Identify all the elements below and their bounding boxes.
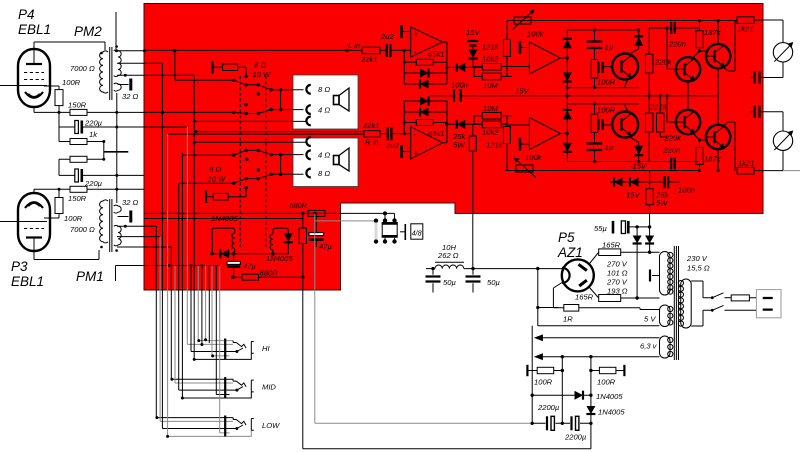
speaker terminal R common bbox=[306, 137, 310, 146]
connector node dots bbox=[374, 219, 378, 223]
U2 output wire bbox=[443, 101, 447, 143]
svg-text:270 V: 270 V bbox=[606, 278, 628, 287]
transistor Q3 ch1 bbox=[706, 44, 730, 68]
svg-text:4 Ω: 4 Ω bbox=[318, 151, 330, 160]
svg-text:10M: 10M bbox=[483, 104, 498, 113]
wire common box L bbox=[194, 120, 307, 122]
U1 output wire bbox=[443, 42, 447, 84]
U4 input terminal bbox=[519, 138, 522, 151]
resistor 25k 5W (vertical) bbox=[646, 189, 653, 205]
wire 100R lower connections bbox=[44, 189, 59, 218]
wire 1k21 top to meter M1 bbox=[763, 20, 783, 43]
svg-text:10k2: 10k2 bbox=[482, 128, 499, 137]
resistor 150R (lower) bbox=[70, 186, 87, 192]
bundle junction dots bbox=[197, 339, 200, 342]
svg-text:100R: 100R bbox=[62, 78, 81, 87]
bundle wire 7 bbox=[179, 183, 237, 390]
wire second row bbox=[144, 218, 303, 220]
svg-text:8 Ω: 8 Ω bbox=[318, 85, 330, 94]
bundle wire 1 bbox=[156, 226, 233, 417]
svg-text:P5: P5 bbox=[558, 230, 575, 245]
transistor Q2 ch2 bbox=[676, 110, 700, 134]
potentiometer 100k ch1 bbox=[514, 17, 531, 24]
U3 output bbox=[561, 57, 568, 59]
switch contacts group1 bbox=[234, 80, 271, 113]
wires group1 to box L bbox=[271, 90, 303, 110]
diode 1N4005 (horizontal) bbox=[532, 394, 591, 396]
svg-text:220µ: 220µ bbox=[84, 119, 103, 128]
svg-text:47µ: 47µ bbox=[319, 242, 332, 251]
svg-text:1k21: 1k21 bbox=[737, 25, 753, 34]
svg-text:121k: 121k bbox=[482, 43, 500, 52]
wire stub above PM2 bbox=[115, 12, 117, 49]
4/8 selector box bbox=[411, 224, 423, 239]
svg-text:EBL1: EBL1 bbox=[18, 22, 51, 37]
wire 25k to B+ node bbox=[472, 124, 474, 268]
resistor 150R bbox=[70, 109, 87, 115]
PM1 secondary taps to red bbox=[117, 226, 171, 247]
primary to mains wires bbox=[691, 281, 711, 326]
diode pair U2 row1 bbox=[404, 100, 447, 102]
resistor 100R ch1 (vertical) bbox=[591, 60, 598, 79]
tube P3 dome arc bbox=[25, 202, 43, 208]
diode D4 (vertical at T2) bbox=[284, 233, 293, 242]
svg-text:680R: 680R bbox=[289, 201, 308, 210]
gray wire pair to connector bbox=[315, 213, 532, 423]
tube P4 anode bbox=[26, 63, 42, 65]
speaker terminal L common bbox=[306, 117, 310, 126]
svg-text:15V: 15V bbox=[515, 87, 529, 96]
resistor 1k21 ch2 bbox=[737, 167, 754, 174]
wire 187k ch2 bbox=[700, 140, 707, 171]
resistor 100R (P3 cathode) bbox=[55, 198, 63, 214]
red highlight region bbox=[144, 4, 763, 291]
wire common box R bbox=[194, 141, 307, 143]
svg-text:L in: L in bbox=[348, 41, 360, 50]
svg-text:1k21: 1k21 bbox=[738, 159, 754, 168]
svg-text:22k1: 22k1 bbox=[360, 55, 377, 64]
bundle wire 12 bbox=[198, 266, 233, 341]
svg-text:8 Ω: 8 Ω bbox=[254, 61, 266, 70]
mains switch contacts bbox=[712, 293, 723, 311]
svg-text:15V: 15V bbox=[466, 28, 480, 37]
resistor 22k1 (L) bbox=[362, 47, 380, 54]
svg-text:65k1: 65k1 bbox=[428, 50, 444, 59]
wire M2 top bbox=[760, 112, 784, 131]
wire link 1k to lower row bbox=[103, 142, 105, 160]
gray wire exiting right bbox=[783, 170, 800, 172]
wires group2 to box R bbox=[271, 155, 303, 175]
Q1 ch1 collector/emitter wires bbox=[625, 49, 639, 88]
resistor 680R (top) bbox=[308, 210, 325, 216]
resistor (vertical) near 47u right bbox=[299, 228, 306, 244]
bundle wire 3 bbox=[144, 63, 237, 428]
svg-text:150R: 150R bbox=[68, 194, 87, 203]
svg-text:7000 Ω: 7000 Ω bbox=[70, 64, 95, 73]
capacitor 50u (right) bbox=[472, 269, 474, 293]
terminal at 32 ohm tap bbox=[118, 84, 129, 86]
wire 25k down to 55u node bbox=[649, 171, 651, 227]
tube P4 envelope bbox=[18, 49, 50, 107]
tube P3 anode stem bbox=[34, 238, 99, 260]
svg-text:100k: 100k bbox=[527, 30, 545, 39]
inductor T1 coil bbox=[232, 233, 235, 254]
base coupling cap ch1 bbox=[598, 62, 600, 73]
transformer core bbox=[674, 246, 678, 360]
tube P4 cathode arc bbox=[25, 92, 43, 98]
U3 lower input bbox=[507, 66, 529, 68]
PM2 secondary taps to red bbox=[116, 51, 194, 75]
U3 input terminal bbox=[519, 41, 522, 54]
capacitor 220u (lower) bbox=[59, 174, 144, 176]
wires group1 left bbox=[175, 51, 234, 81]
svg-text:47µ: 47µ bbox=[243, 262, 256, 271]
svg-text:5 V: 5 V bbox=[644, 315, 656, 324]
inductor loop T2 bbox=[273, 228, 288, 254]
screen plate bbox=[652, 275, 660, 277]
PM1 secondary winding lower bbox=[114, 225, 122, 245]
transformer PM2 top wire bbox=[34, 42, 105, 50]
svg-text:5W: 5W bbox=[656, 199, 668, 208]
stage rails ch2 bbox=[567, 96, 638, 162]
bundle wire 13 bbox=[201, 266, 203, 345]
transformer PM2 primary winding bbox=[100, 51, 108, 93]
feedback resistor U2 bbox=[404, 101, 447, 134]
svg-text:187k: 187k bbox=[704, 155, 722, 164]
speaker icon R bbox=[334, 156, 340, 165]
bundle wire 10 bbox=[191, 266, 237, 352]
U4 upper input bbox=[507, 124, 529, 126]
resistor 100R (P4 cathode) bbox=[55, 90, 63, 106]
transistor Q1 ch1 bbox=[612, 54, 638, 80]
svg-text:100k: 100k bbox=[525, 153, 543, 162]
diode pair U2 row2 bbox=[404, 111, 447, 113]
svg-text:100R: 100R bbox=[597, 78, 616, 87]
svg-text:PM1: PM1 bbox=[76, 269, 104, 284]
PM1 phase dots bbox=[100, 246, 103, 249]
meter M2 bbox=[773, 131, 792, 150]
resistor 100R (heater left) bbox=[526, 365, 528, 376]
op-amp U2 bbox=[411, 127, 443, 159]
capacitor 2200u (left) bbox=[532, 422, 562, 424]
rectifier diode B bbox=[649, 227, 651, 236]
resistor 1k bbox=[70, 139, 87, 145]
capacitor 55u bbox=[612, 221, 615, 234]
wire lower 1k row bbox=[59, 159, 104, 175]
svg-text:262 Ω: 262 Ω bbox=[437, 251, 459, 260]
capacitor 47u (right) bbox=[315, 213, 317, 247]
svg-text:1N4005: 1N4005 bbox=[266, 254, 293, 263]
tube P3 grids (dashed) bbox=[24, 222, 44, 229]
jumper block bbox=[382, 223, 398, 236]
wires group2 left bbox=[179, 153, 234, 183]
top row rail bbox=[507, 20, 737, 22]
svg-text:4/8: 4/8 bbox=[412, 228, 422, 237]
svg-text:P4: P4 bbox=[18, 7, 35, 22]
B+ takeoff to 5V winding bbox=[538, 269, 660, 326]
resistor 1k21 ch1 bbox=[737, 17, 754, 24]
capacitor 1u ch2 bbox=[594, 133, 596, 162]
wire 680R bottom row bbox=[233, 276, 303, 278]
rectifier diode A bbox=[636, 227, 638, 236]
jack LOW bbox=[224, 416, 254, 437]
svg-text:121k: 121k bbox=[486, 141, 504, 150]
stage rails ch1 bbox=[567, 30, 638, 96]
jack MID bbox=[224, 377, 254, 398]
svg-text:5W: 5W bbox=[453, 141, 465, 150]
tube P3 envelope bbox=[18, 193, 50, 251]
bundle wire 6 bbox=[175, 266, 233, 384]
bundle wire 15 bbox=[208, 266, 210, 344]
bundle wire 9 bbox=[187, 127, 233, 344]
wire pot to 121k bbox=[506, 21, 508, 40]
resistor 220k ch1 (vertical) bbox=[646, 54, 653, 73]
L in rail bbox=[144, 49, 362, 51]
svg-text:220n: 220n bbox=[668, 40, 686, 49]
switch contacts group2 bbox=[234, 150, 271, 183]
svg-text:100R: 100R bbox=[597, 106, 616, 115]
vertical from 6.3V line left bbox=[561, 357, 563, 424]
diode pair 15V bbox=[610, 181, 659, 183]
svg-text:AZ1: AZ1 bbox=[557, 245, 583, 260]
terminal slot (gray) bbox=[375, 223, 378, 240]
capacitor 2200u (right) bbox=[562, 422, 591, 424]
resistor 121k ch1 (vertical) bbox=[503, 39, 510, 56]
diode pair U1 row2 bbox=[404, 83, 447, 85]
svg-text:15,5 Ω: 15,5 Ω bbox=[687, 264, 710, 273]
node dots B+ bbox=[431, 267, 434, 270]
capacitor at M1 return bbox=[755, 72, 760, 84]
speaker terminal R 8ohm bbox=[306, 169, 310, 178]
transistor Q1 ch2 bbox=[612, 112, 638, 138]
AZ1 filament wires bbox=[553, 283, 659, 310]
wire pot ch2 bbox=[506, 165, 508, 171]
capacitor 50u (left) bbox=[432, 269, 434, 293]
svg-text:270 V: 270 V bbox=[606, 260, 628, 269]
resistor 1k (lower, unlabeled) bbox=[70, 156, 87, 162]
wire diode left down bbox=[531, 326, 533, 424]
svg-text:2u2: 2u2 bbox=[380, 32, 394, 41]
svg-text:-: - bbox=[414, 48, 417, 57]
U2 plus input terminal bbox=[400, 145, 403, 158]
svg-text:2200µ: 2200µ bbox=[537, 403, 560, 412]
resistor 187k ch2 (vertical) bbox=[696, 147, 703, 164]
choke core bar bbox=[435, 261, 464, 263]
capacitor 220u (top) bbox=[59, 126, 187, 128]
svg-text:PM2: PM2 bbox=[74, 24, 102, 39]
capacitor 220n ch2 bbox=[639, 161, 700, 163]
bundle wire 2 bbox=[160, 237, 233, 422]
svg-text:15V: 15V bbox=[626, 191, 640, 200]
resistor 680R vertical x303 top stub bbox=[302, 213, 304, 228]
svg-text:P3: P3 bbox=[11, 259, 28, 274]
diode ch2 lower right bbox=[638, 142, 640, 161]
U4 output bbox=[561, 133, 568, 135]
svg-text:1N4005: 1N4005 bbox=[598, 408, 625, 417]
wire PM2 common down bbox=[116, 93, 118, 203]
svg-text:65k1: 65k1 bbox=[428, 129, 444, 138]
svg-text:165R: 165R bbox=[575, 293, 594, 302]
svg-text:2200µ: 2200µ bbox=[564, 433, 587, 442]
inductor T2 coil bbox=[270, 234, 273, 250]
6.3V winding bbox=[660, 336, 671, 358]
wire diode row to T2 bbox=[234, 253, 289, 255]
B+ wire bbox=[426, 268, 562, 270]
speaker terminal loop bbox=[385, 213, 395, 220]
op-amp U1 bbox=[411, 27, 443, 57]
svg-text:1N4005: 1N4005 bbox=[596, 392, 623, 401]
svg-text:230 V: 230 V bbox=[686, 254, 708, 263]
tube P4 grids (dashed) bbox=[24, 73, 44, 80]
+15V rail bbox=[480, 95, 718, 97]
bundle wire 18 (through gray) bbox=[220, 266, 230, 433]
node dot L rail bbox=[172, 49, 175, 52]
power transformer HV winding bbox=[660, 252, 671, 296]
svg-text:1R: 1R bbox=[563, 315, 573, 324]
capacitor 220n ch1 top bbox=[649, 27, 699, 29]
fuse bbox=[725, 297, 732, 299]
tube P4 cathode lead bbox=[44, 86, 59, 90]
power resistor 8ohm 10W (top) bbox=[211, 61, 213, 74]
tube P3 grid lead bbox=[0, 221, 47, 223]
svg-text:10 W: 10 W bbox=[208, 175, 227, 184]
resistor 121k ch2 (vertical) bbox=[503, 127, 510, 144]
svg-text:150R: 150R bbox=[68, 101, 87, 110]
svg-text:1µ: 1µ bbox=[605, 143, 614, 152]
svg-text:1µ: 1µ bbox=[605, 43, 614, 52]
wire lower 150R row bbox=[34, 189, 144, 194]
svg-text:220n: 220n bbox=[663, 146, 681, 155]
diode ch1 upper right bbox=[638, 30, 640, 49]
heater line 6.3V top (arrow) bbox=[536, 337, 660, 339]
svg-text:EBL1: EBL1 bbox=[11, 274, 44, 289]
speaker terminal L 4ohm bbox=[306, 105, 310, 114]
PM2 secondary winding upper bbox=[114, 50, 122, 77]
wire meter M2 bottom to 1k21 bbox=[763, 150, 783, 170]
diode pair vertical ch2 bbox=[566, 104, 568, 162]
bundle wire 5 bbox=[171, 247, 233, 379]
speaker icon L bbox=[334, 96, 340, 105]
potentiometer 100k ch2 bbox=[516, 165, 533, 172]
svg-text:101 Ω: 101 Ω bbox=[607, 269, 628, 278]
mains plug bbox=[756, 290, 781, 318]
svg-text:6,3 v: 6,3 v bbox=[640, 342, 658, 351]
bundle wire 8 bbox=[182, 153, 251, 398]
svg-text:R in: R in bbox=[365, 138, 379, 147]
svg-text:32 Ω: 32 Ω bbox=[122, 198, 139, 207]
speaker box R (white cutout) bbox=[293, 138, 358, 187]
capacitor 2u2 (L) bbox=[380, 49, 411, 51]
resistor 100R (heater right) bbox=[591, 370, 600, 372]
svg-text:100R: 100R bbox=[597, 378, 616, 387]
tube P4 grid lead bbox=[0, 85, 47, 87]
svg-text:8 Ω: 8 Ω bbox=[209, 165, 221, 174]
diode pair U1 row1 bbox=[404, 72, 447, 74]
wire 150R row bbox=[34, 107, 234, 112]
svg-text:MID: MID bbox=[262, 383, 276, 392]
svg-text:187k: 187k bbox=[704, 28, 722, 37]
bundle wire 11 bbox=[194, 75, 251, 359]
terminal at PM1 32 ohm tap bbox=[118, 216, 129, 218]
Q2 ch2 wires bbox=[667, 96, 700, 140]
svg-text:10M: 10M bbox=[483, 81, 498, 90]
svg-text:+: + bbox=[414, 149, 419, 158]
PM2 core bbox=[110, 47, 112, 100]
capacitor 1u ch1 bbox=[594, 30, 596, 60]
resistor 22k1 (R) bbox=[364, 131, 380, 138]
svg-text:220k: 220k bbox=[664, 134, 683, 143]
svg-text:55µ: 55µ bbox=[594, 224, 607, 233]
diode D1 to 10k2 bbox=[447, 66, 482, 68]
PM1 bottom line into red bbox=[116, 266, 220, 282]
tube P4 anode stem wire bbox=[33, 42, 35, 64]
svg-text:100n: 100n bbox=[451, 81, 468, 90]
-15V rail bbox=[505, 170, 700, 172]
svg-text:680R: 680R bbox=[260, 269, 279, 278]
bundle wire 16 bbox=[212, 266, 230, 356]
choke winding bbox=[435, 265, 464, 269]
wire 100R to 150R line bbox=[58, 106, 60, 127]
speaker terminal R 4ohm bbox=[306, 150, 310, 159]
wires 220k/221k ch2 bbox=[649, 96, 667, 162]
transistor Q2 ch1 bbox=[676, 57, 700, 81]
svg-text:LOW: LOW bbox=[262, 421, 280, 430]
svg-text:HI: HI bbox=[262, 344, 270, 353]
speaker box L (white cutout) bbox=[293, 75, 358, 129]
wire 680R top row bbox=[144, 212, 385, 214]
diode 1N4005 (vertical) bbox=[586, 406, 595, 414]
transformer PM1 primary winding bbox=[100, 200, 108, 243]
capacitor 2u2 (R) bbox=[380, 133, 411, 135]
speaker terminal L 8ohm bbox=[306, 85, 310, 94]
4/8 selector plate bbox=[400, 231, 405, 233]
Q2 ch1 wires bbox=[667, 28, 700, 96]
bias stub mark bbox=[104, 151, 129, 153]
PM2 winding phase dots bbox=[100, 52, 103, 55]
dashed selector lines bbox=[240, 76, 266, 247]
diode pair vertical ch1 bbox=[566, 30, 568, 88]
bundle wire 17 (through) bbox=[216, 266, 229, 395]
R in rail (dual line) bbox=[168, 132, 364, 135]
bundle wire 4 bbox=[168, 134, 252, 436]
resistor 10M ch1 bbox=[482, 73, 501, 80]
wire x303 vertical down bbox=[302, 244, 304, 449]
svg-text:221k: 221k bbox=[649, 103, 668, 112]
PM1 core bbox=[110, 199, 112, 252]
wire 1R left bbox=[538, 307, 559, 309]
primary winding bbox=[681, 279, 692, 328]
wire meter M1 bottom bbox=[760, 62, 783, 78]
svg-text:50µ: 50µ bbox=[487, 278, 500, 287]
tube P3 anode bbox=[26, 236, 42, 238]
diode D3 (freewheel, horizontal) bbox=[212, 253, 234, 255]
tube AZ1 envelope bbox=[562, 259, 594, 291]
op-amp U4 bbox=[529, 118, 560, 150]
Q1 ch2 collector/emitter wires bbox=[625, 104, 639, 142]
svg-text:+: + bbox=[414, 30, 419, 39]
PM2 secondary winding lower bbox=[114, 83, 122, 91]
U1 plus input terminal bbox=[400, 25, 403, 38]
svg-text:4 Ω: 4 Ω bbox=[318, 105, 330, 114]
wire 220k ch1 bbox=[648, 28, 650, 96]
resistor 187k ch1 (vertical) bbox=[696, 31, 703, 48]
svg-text:220k: 220k bbox=[654, 58, 673, 67]
capacitor at M2 feed bbox=[755, 106, 760, 118]
svg-text:10k2: 10k2 bbox=[482, 55, 499, 64]
svg-text:2u2: 2u2 bbox=[385, 141, 399, 150]
inductor loop T1 bbox=[212, 228, 235, 253]
svg-text:-: - bbox=[414, 130, 417, 139]
